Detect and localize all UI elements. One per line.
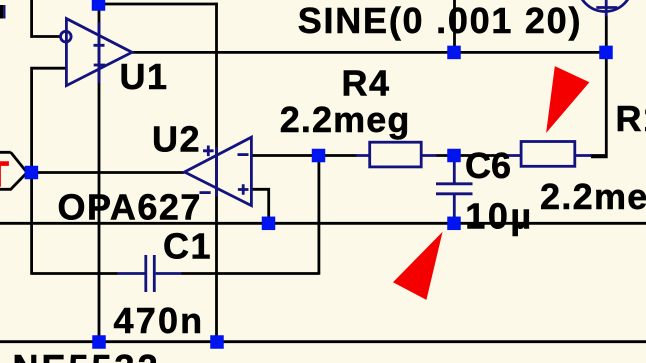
op-amp U1 — [61, 19, 133, 86]
svg-text:R1: R1 — [616, 98, 646, 139]
junction R4 / R1 / C6 top — [447, 149, 461, 163]
cursor arrow 1 — [546, 66, 589, 133]
port flag T — [0, 152, 27, 189]
junction U2 supply / bottom rail — [210, 335, 224, 349]
wire: U2 output to T node — [26, 171, 185, 174]
svg-text:U2: U2 — [152, 119, 201, 160]
cursor arrow 2 — [393, 232, 443, 300]
capacitor C6 — [436, 160, 473, 218]
wire: bottom rail — [0, 340, 646, 343]
svg-text:SINE(0 .001 20): SINE(0 .001 20) — [298, 0, 582, 41]
wire: top rail V+ — [99, 3, 218, 6]
clipped label fragment top-left — [0, 5, 6, 19]
wire: R1 to source node — [590, 154, 605, 157]
wire: U1 supply vertical — [98, 9, 101, 342]
wire: C1 left branch — [32, 272, 118, 275]
wire: U1 output rail to source — [132, 51, 606, 54]
junction V+ rail top — [92, 0, 106, 11]
svg-text:10µ: 10µ — [465, 195, 533, 236]
svg-text:C1: C1 — [163, 225, 212, 266]
wire: V1 top drop — [453, 0, 456, 52]
svg-text:470n: 470n — [114, 300, 205, 341]
svg-text:2.2meg: 2.2meg — [540, 176, 646, 217]
svg-text:C6: C6 — [465, 145, 511, 186]
junction U2 noninverting input / mid rail — [262, 217, 276, 231]
junction output rail / V1 drop — [447, 46, 461, 60]
junction node T / U2 output / U1 feedback — [25, 166, 39, 180]
voltage source V1 — [578, 0, 633, 17]
svg-text:R4: R4 — [342, 62, 391, 103]
op-amp U2 — [185, 137, 252, 205]
wire: U2 noninverting input drop — [251, 189, 268, 223]
capacitor C1 — [118, 255, 182, 292]
junction U1 supply / bottom rail — [92, 335, 106, 349]
wire: left vertical into U1 + input — [32, 0, 61, 37]
resistor R4 — [356, 142, 437, 167]
wire: R4 to C6 node — [436, 154, 508, 157]
junction output rail / source — [599, 46, 613, 60]
svg-text:T: T — [0, 154, 11, 195]
resistor R1 — [507, 142, 591, 167]
wire: source node down to R1 — [591, 16, 606, 157]
wire: U2 supply vertical — [215, 3, 218, 342]
junction U2 inverting input / R4 / C1 branch — [312, 149, 326, 163]
wire: U1 - input from feedback node — [32, 68, 67, 275]
svg-text:2.2meg: 2.2meg — [280, 99, 411, 140]
wire: C1 right branch up to R4 node — [182, 156, 319, 275]
svg-text:U1: U1 — [120, 56, 169, 97]
svg-text:OPA627: OPA627 — [58, 187, 202, 228]
wire: U2 inverting input to R4 — [251, 154, 357, 157]
junction C6 bottom / mid rail — [447, 217, 461, 231]
wire: mid rail — [0, 222, 646, 225]
svg-text:NE5532: NE5532 — [13, 347, 161, 363]
